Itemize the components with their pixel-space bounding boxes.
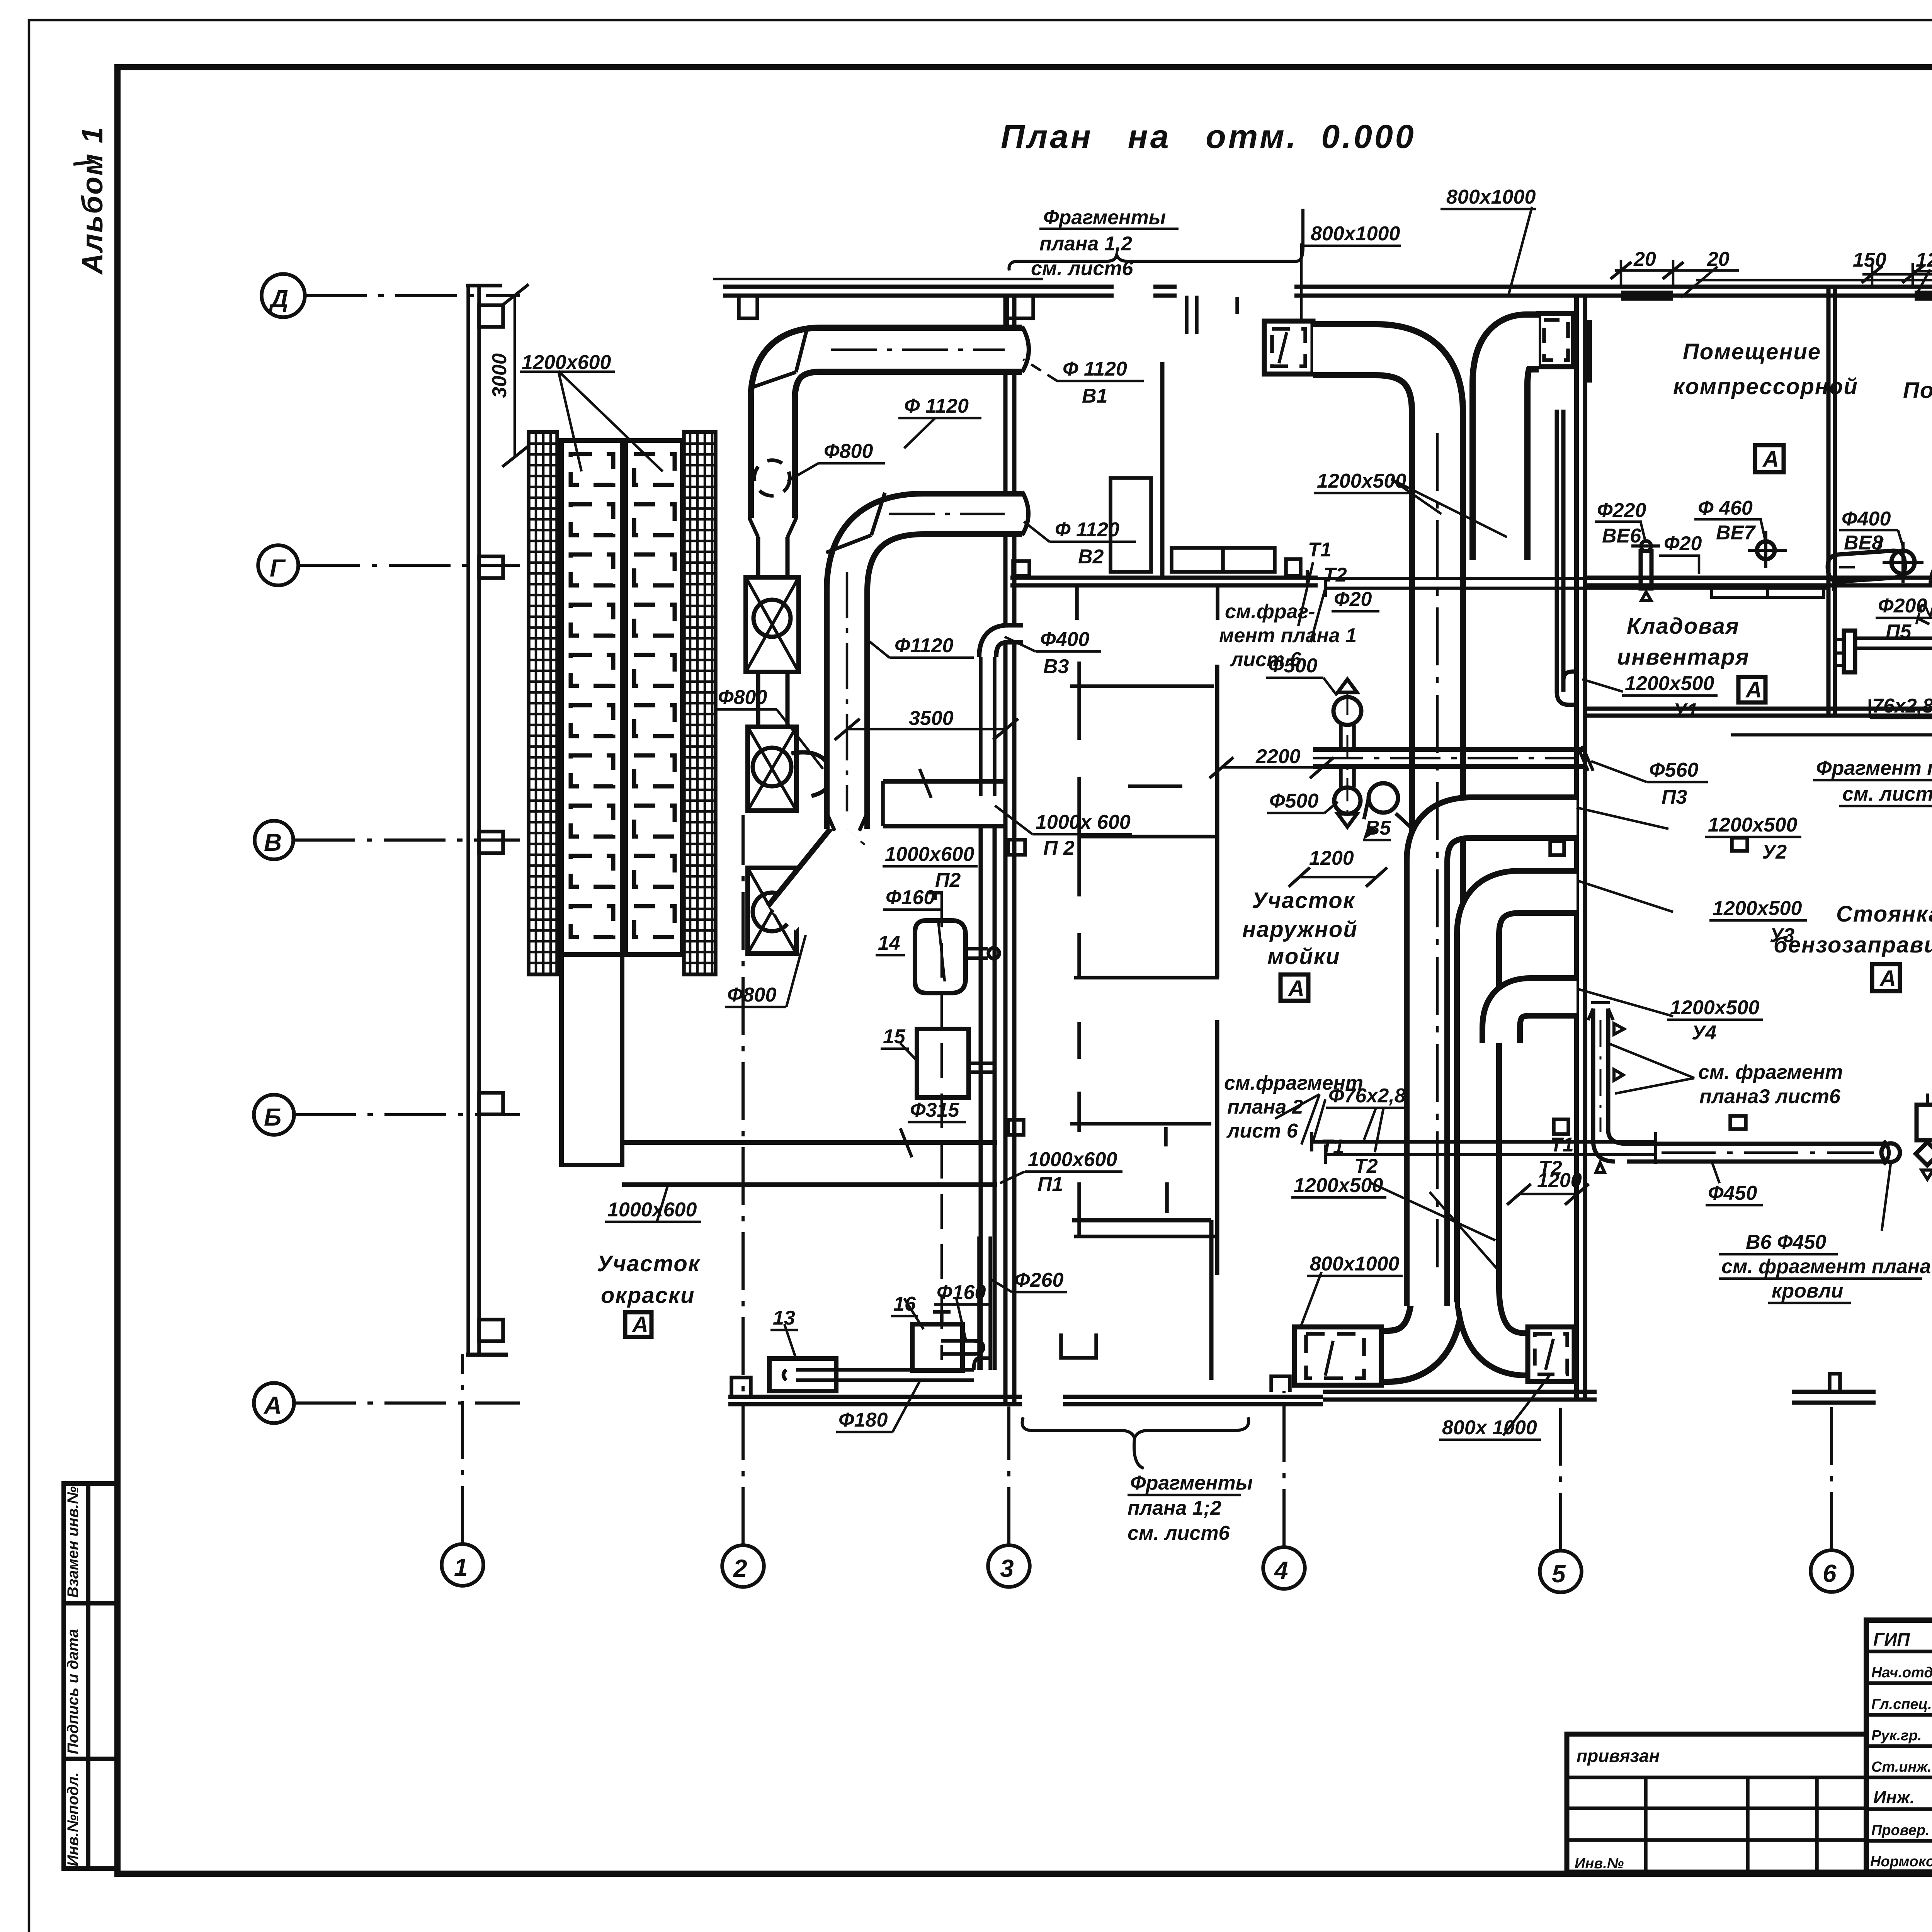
exhaust box B 800x1000 bottom right (1528, 1327, 1574, 1381)
svg-text:привязан: привязан (1577, 1746, 1660, 1766)
B2 bevels (826, 535, 871, 553)
svg-text:1200х500: 1200х500 (1708, 814, 1797, 836)
svg-text:см. лист6: см. лист6 (1128, 1522, 1230, 1544)
svg-text:Т1: Т1 (1550, 1134, 1574, 1156)
exhaust box A 800x1000 bottom (1294, 1327, 1381, 1385)
svg-text:мойки: мойки (1267, 944, 1340, 969)
svg-text:ГИП: ГИП (1873, 1629, 1910, 1650)
device 14 (915, 920, 966, 993)
svg-text:Ф1120: Ф1120 (895, 634, 954, 657)
leaders for 1200x500 labels (1391, 479, 1507, 537)
duct 800 between fans (756, 672, 760, 727)
svg-text:В5: В5 (1365, 817, 1391, 839)
svg-text:1200: 1200 (1537, 1169, 1582, 1192)
svg-text:6: 6 (1823, 1560, 1837, 1587)
svg-text:Ф800: Ф800 (727, 984, 776, 1006)
leader B6 F450 (1882, 1164, 1891, 1231)
svg-text:Т1: Т1 (1321, 1136, 1344, 1158)
vertical riser alongside axis3 wall (979, 826, 983, 1370)
fragment plana 4 brace (1731, 735, 1932, 772)
exhaust box R 800x1000 top-right (1539, 313, 1573, 367)
U4 exhaust (1501, 997, 1577, 1043)
svg-text:У3: У3 (1770, 924, 1794, 947)
svg-text:Г: Г (270, 554, 286, 582)
U2 exhaust: vertical up to bend east (1427, 818, 1577, 1306)
svg-text:Ф 1120: Ф 1120 (1055, 519, 1119, 541)
fan B5 scroll (1369, 783, 1398, 813)
dashed circle F800 (754, 460, 790, 496)
svg-text:В3: В3 (1043, 655, 1069, 678)
svg-text:плана 2: плана 2 (1227, 1096, 1303, 1118)
svg-text:Инв.№: Инв.№ (1575, 1855, 1624, 1872)
svg-text:150: 150 (1853, 249, 1886, 271)
svg-text:1200х500: 1200х500 (1713, 897, 1802, 920)
wall axis5 vertical (1574, 296, 1579, 1400)
B1 bevel lines (749, 372, 796, 388)
diagonal duct 800 to B2 (781, 832, 850, 917)
svg-text:3: 3 (1000, 1554, 1014, 1582)
svg-text:Провер.: Провер. (1871, 1822, 1930, 1838)
dim 1200 between box B and wall (1519, 1193, 1577, 1196)
fan unit 1 (box with X) (746, 577, 799, 672)
svg-text:2200: 2200 (1255, 745, 1301, 768)
top wall of building (723, 285, 1114, 289)
svg-text:П3: П3 (1662, 786, 1687, 808)
F160 tee on box16 (933, 1312, 951, 1324)
svg-text:Ф800: Ф800 (718, 686, 767, 709)
svg-text:см. лист6: см. лист6 (1031, 257, 1134, 280)
duct B2 horizontal+vertical 1120 (847, 514, 1022, 829)
room divider wall (compressor/OGS) (1827, 289, 1831, 715)
column marks at axes B and Б on walls (1550, 841, 1564, 855)
svg-text:плана 1,2: плана 1,2 (1039, 233, 1132, 255)
svg-text:лист 6: лист 6 (1226, 1120, 1298, 1142)
svg-text:12: 12 (1916, 249, 1932, 271)
svg-text:Нормокон.: Нормокон. (1870, 1854, 1932, 1870)
svg-text:Ф400: Ф400 (1842, 508, 1891, 530)
svg-text:Ф260: Ф260 (1014, 1269, 1063, 1291)
black riser bar on compressor west wall (1586, 320, 1592, 383)
P4 device (1917, 1105, 1932, 1140)
svg-text:800х1000: 800х1000 (1310, 1253, 1399, 1275)
svg-text:Фрагменты: Фрагменты (1130, 1472, 1253, 1494)
svg-text:1000х600: 1000х600 (607, 1199, 697, 1221)
centerline through devices (940, 893, 943, 1360)
svg-text:Кладовая: Кладовая (1627, 614, 1740, 639)
supply duct P1 horizontal 1000x600 (622, 1140, 997, 1145)
svg-text:1200: 1200 (1309, 847, 1354, 869)
svg-text:13: 13 (773, 1307, 795, 1329)
svg-text:Ф 1120: Ф 1120 (1063, 358, 1127, 380)
svg-text:Ф180: Ф180 (838, 1409, 888, 1431)
svg-text:20: 20 (1633, 248, 1656, 270)
duct F400 V3 (988, 634, 1023, 657)
bottom bend west into box A (1379, 1287, 1437, 1356)
svg-text:1000х 600: 1000х 600 (1036, 811, 1131, 833)
duct B1 lower 800 (756, 537, 760, 577)
leader F450 (1712, 1162, 1719, 1183)
svg-text:ВЕ8: ВЕ8 (1844, 532, 1883, 554)
paint chamber right hatched band (684, 432, 716, 975)
svg-text:20: 20 (1707, 248, 1730, 270)
device 15 (917, 1029, 969, 1097)
svg-text:1200х500: 1200х500 (1625, 672, 1714, 695)
svg-text:Т2: Т2 (1323, 564, 1347, 586)
F450 vertical with elbow (1591, 1009, 1595, 1140)
svg-text:Ф800: Ф800 (824, 440, 873, 463)
svg-text:В: В (264, 828, 282, 856)
svg-text:Фрагменты: Фрагменты (1043, 206, 1166, 229)
svg-text:Ст.инж.: Ст.инж. (1871, 1759, 1932, 1775)
svg-text:3500: 3500 (909, 707, 954, 730)
svg-text:2: 2 (733, 1554, 747, 1582)
svg-text:П1: П1 (1037, 1173, 1063, 1196)
axis circles bottom (442, 1544, 483, 1586)
signature rows (1866, 1650, 1932, 1653)
P2 supply duct 1000x600 (883, 779, 1005, 784)
storage bottom wall y1840 (1585, 707, 1932, 711)
svg-text:Ф560: Ф560 (1649, 759, 1698, 781)
svg-text:бензозаправщиков: бензозаправщиков (1774, 932, 1932, 957)
dim 20 20 compressor (1615, 269, 1739, 272)
svg-text:Помещение: Помещение (1683, 339, 1821, 364)
white patch to reopen vertical overlap (1415, 1267, 1460, 1310)
svg-text:В6 Ф450: В6 Ф450 (1746, 1231, 1826, 1253)
svg-text:Помещение: Помещение (1903, 378, 1932, 403)
svg-text:Ф 460: Ф 460 (1698, 497, 1753, 519)
black bars on top wall (insulation marks) (1621, 291, 1673, 301)
parapet line above top wall (713, 278, 1043, 281)
svg-text:плана3 лист6: плана3 лист6 (1699, 1085, 1841, 1108)
leaders see fragment plana 3 (1615, 1078, 1694, 1094)
svg-text:800х1000: 800х1000 (1311, 223, 1400, 245)
dim 3500 (847, 728, 1005, 731)
svg-text:инвентаря: инвентаря (1617, 645, 1750, 670)
VE7 circle cross (1757, 541, 1775, 559)
B1 transition cone to 800 (749, 518, 796, 537)
svg-text:В1: В1 (1082, 385, 1107, 407)
fan 13 (769, 1359, 836, 1391)
svg-text:Ф20: Ф20 (1334, 588, 1372, 611)
svg-text:800х1000: 800х1000 (1446, 186, 1536, 208)
svg-text:1000х600: 1000х600 (885, 843, 974, 866)
B2 centerline (846, 572, 849, 811)
B2 transition (826, 811, 868, 831)
axis lines bottom (dash-dot) (461, 1354, 464, 1544)
svg-text:Ф220: Ф220 (1597, 499, 1646, 522)
svg-text:П 2: П 2 (1043, 837, 1075, 859)
svg-text:У1: У1 (1673, 699, 1698, 722)
VE8 cylinder (1827, 550, 1906, 582)
svg-text:1000х600: 1000х600 (1028, 1148, 1117, 1171)
svg-text:Ф160: Ф160 (937, 1281, 986, 1304)
washing rooms partitions (1010, 576, 1318, 580)
top wall columns (739, 296, 757, 318)
inner leg down to U1 grille (1555, 410, 1559, 692)
fragments 1;2 bottom brace (1022, 1417, 1249, 1438)
svg-text:В2: В2 (1078, 546, 1104, 568)
svg-text:Нач.отд: Нач.отд (1871, 1665, 1932, 1681)
svg-text:Т1: Т1 (1308, 539, 1332, 561)
dim 1200 (mojka) (1298, 876, 1376, 879)
svg-text:Ф400: Ф400 (1040, 628, 1089, 651)
svg-text:1200х500: 1200х500 (1317, 470, 1406, 492)
wall axis1 left (466, 286, 470, 1355)
heating pipes T1/T2 lower (1312, 1140, 1656, 1144)
svg-text:Подпись и дата: Подпись и дата (65, 1629, 82, 1754)
svg-text:плана 1;2: плана 1;2 (1128, 1497, 1221, 1519)
inlet box 800x1000 top-left (1264, 321, 1313, 374)
svg-text:14: 14 (878, 932, 900, 954)
dim 150 12 OGS (1862, 273, 1932, 276)
heating pipes T1/T2 upper (1307, 577, 1828, 580)
F450 duct parking (1627, 1142, 1884, 1146)
svg-text:Ф500: Ф500 (1269, 790, 1318, 812)
svg-text:Участок: Участок (597, 1251, 701, 1276)
svg-text:Ф 1120: Ф 1120 (904, 395, 969, 417)
svg-text:А: А (1762, 447, 1780, 472)
svg-text:П5: П5 (1886, 621, 1912, 643)
duct B1 horizontal+vertical 1120 (773, 350, 1022, 518)
svg-text:наружной: наружной (1242, 917, 1358, 942)
svg-text:Рук.гр.: Рук.гр. (1871, 1728, 1922, 1744)
VE6 device (1641, 551, 1651, 588)
right U duct: from box R west then down (1500, 342, 1539, 560)
top fragments brace (1009, 209, 1303, 270)
svg-text:Фрагмент плана4: Фрагмент плана4 (1816, 757, 1932, 779)
svg-text:У4: У4 (1692, 1022, 1716, 1044)
svg-text:Ф160: Ф160 (886, 886, 935, 909)
dim 3000 line (514, 294, 516, 456)
svg-text:см. лист 9: см. лист 9 (1842, 783, 1932, 805)
svg-text:ВЕ6: ВЕ6 (1602, 525, 1641, 547)
svg-text:Б: Б (264, 1103, 281, 1131)
svg-text:15: 15 (883, 1026, 906, 1048)
filter column 2 frame (626, 440, 682, 954)
centerline crosses on F500 (1347, 692, 1349, 815)
svg-text:1: 1 (454, 1553, 468, 1581)
svg-text:Ф20: Ф20 (1664, 532, 1702, 555)
svg-text:Инж.: Инж. (1873, 1787, 1915, 1807)
F260 elbow up (974, 1359, 987, 1380)
svg-text:А: А (1745, 677, 1763, 702)
bottom wall (728, 1395, 1022, 1399)
filter column 1 frame (561, 440, 622, 954)
supply duct U-left: from inlet box east then down (1313, 350, 1437, 1306)
svg-text:Ф315: Ф315 (910, 1099, 959, 1121)
svg-text:П2: П2 (935, 869, 961, 891)
P3 duct F560 (1313, 747, 1587, 752)
left small table (1567, 1734, 1866, 1872)
rooms bottom wall y1495 (1585, 576, 1932, 580)
svg-text:4: 4 (1274, 1556, 1288, 1584)
box 16 (912, 1324, 963, 1371)
svg-text:мент плана 1: мент плана 1 (1219, 624, 1357, 647)
svg-text:3000: 3000 (488, 353, 511, 398)
svg-text:Стоянка: Стоянка (1836, 901, 1932, 927)
svg-text:5: 5 (1552, 1560, 1566, 1588)
svg-text:компрессорной: компрессорной (1673, 374, 1858, 399)
B1 end cap (1022, 327, 1029, 372)
svg-text:1200х500: 1200х500 (1294, 1174, 1383, 1197)
F20 bracket near VE6 (1659, 556, 1699, 574)
svg-text:Гл.спец.: Гл.спец. (1871, 1696, 1932, 1713)
dim 2200 (1221, 766, 1321, 769)
svg-text:Участок: Участок (1252, 888, 1355, 913)
svg-text:У2: У2 (1762, 841, 1787, 863)
dashed filter cells column 2 (634, 454, 675, 937)
svg-text:А: А (1879, 966, 1897, 991)
svg-text:А: А (1287, 976, 1305, 1001)
square marks parking (1732, 838, 1747, 851)
left margin table (64, 1483, 117, 1869)
svg-text:Ф450: Ф450 (1708, 1182, 1757, 1204)
svg-text:окраски: окраски (601, 1283, 695, 1308)
paint chamber left hatched band (529, 432, 557, 975)
columns on axis1 wall (479, 305, 503, 327)
svg-text:кровли: кровли (1772, 1280, 1843, 1302)
svg-text:16: 16 (893, 1293, 916, 1315)
axis circles left (262, 274, 305, 317)
wall axis3 vertical (1003, 296, 1008, 1404)
svg-text:1200х500: 1200х500 (1670, 997, 1759, 1019)
svg-text:800х 1000: 800х 1000 (1442, 1417, 1537, 1439)
dashed filter cells column 1 (571, 454, 613, 937)
svg-text:76х2,8: 76х2,8 (1872, 695, 1932, 717)
svg-text:см. фрагмент плана: см. фрагмент плана (1721, 1255, 1931, 1278)
U3 exhaust (1478, 892, 1577, 1302)
axis lines left (dash-dot) (305, 294, 520, 297)
svg-text:Ф500: Ф500 (1268, 655, 1317, 677)
svg-text:План на отм. 0.000: План на отм. 0.000 (1001, 118, 1416, 155)
svg-text:Инв.№подл.: Инв.№подл. (65, 1772, 82, 1866)
U2 bottom bend east into box B (1478, 1287, 1530, 1354)
svg-text:Взамен инв.№: Взамен инв.№ (65, 1486, 82, 1598)
svg-text:А: А (631, 1312, 649, 1337)
leader 1200x600 (558, 371, 582, 471)
fan unit 2 (box with X and scroll) (748, 727, 796, 811)
main title block frame (1866, 1620, 1932, 1872)
F500 damper symbols (1338, 679, 1357, 692)
radiator bars under windows top rooms (1712, 587, 1824, 597)
svg-text:А: А (263, 1391, 282, 1419)
fan unit 3 (box with X) (748, 868, 796, 954)
svg-text:Д: Д (269, 285, 288, 313)
paint exhaust vertical duct (1000x600) (561, 954, 622, 1165)
left small manifold in heat point (1844, 631, 1855, 672)
svg-text:Альбом 1: Альбом 1 (76, 126, 109, 275)
bottom column ticks axes 2,6,7 (731, 1378, 751, 1397)
svg-text:Ф76х2,8: Ф76х2,8 (1328, 1085, 1406, 1107)
svg-text:ВЕ7: ВЕ7 (1716, 522, 1756, 544)
svg-text:см. фрагмент: см. фрагмент (1698, 1061, 1843, 1083)
flow triangles near F450 (1614, 1024, 1624, 1034)
svg-text:1200х600: 1200х600 (522, 351, 611, 374)
